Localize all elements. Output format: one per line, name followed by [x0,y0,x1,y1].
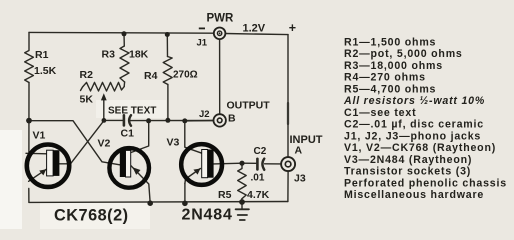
svg-text:J1, J2, J3—phono jacks: J1, J2, J3—phono jacks [344,130,481,142]
svg-text:R2—pot, 5,000 ohms: R2—pot, 5,000 ohms [344,48,463,60]
svg-text:Transistor sockets (3): Transistor sockets (3) [344,166,471,178]
capacitor C2 [256,159,259,170]
svg-text:R5—4,700 ohms: R5—4,700 ohms [344,83,436,95]
node R5 rail [239,199,245,205]
svg-text:C2—.01 µf, disc ceramic: C2—.01 µf, disc ceramic [344,119,484,131]
wire J1 to J2 [219,39,221,114]
wire V2 emitter down [131,166,151,204]
svg-text:R4: R4 [144,70,158,82]
wire V1 collector [26,152,47,155]
svg-text:R2: R2 [80,69,94,81]
node R3 top [122,31,127,36]
parts list [343,37,507,202]
svg-text:A: A [295,145,303,157]
resistor R3 [120,46,129,82]
svg-text:R1—1,500 ohms: R1—1,500 ohms [344,37,436,49]
svg-text:J2: J2 [199,109,210,120]
arrowheads [39,93,200,175]
wire left rail top [28,32,30,50]
svg-text:C2: C2 [254,146,267,157]
wire right rail lower [287,171,289,201]
wire V1 emitter [29,169,47,181]
svg-text:J1: J1 [197,38,208,49]
V2 emitter arrow [133,167,141,175]
wire V3 emitter [185,169,201,184]
wire left rail bottom [28,189,30,203]
svg-text:C1: C1 [121,128,135,140]
R2 wiper arrow [101,93,107,100]
svg-text:R5: R5 [218,189,232,201]
svg-text:+: + [289,21,296,35]
node V3 emitter rail [182,201,188,207]
svg-text:SEE TEXT: SEE TEXT [108,106,156,117]
V3 emitter arrow [193,169,200,175]
wire C2 to J3 [265,163,282,165]
wire top rail left to J1 [29,31,214,34]
svg-text:R3—18,000 ohms: R3—18,000 ohms [344,60,443,72]
svg-text:V3: V3 [167,137,180,149]
wire V3 base to node [214,162,242,165]
svg-text:V2: V2 [98,138,111,150]
svg-text:5K: 5K [80,94,94,106]
jack J3 [281,157,295,171]
light scan patches [0,130,22,229]
wire R2 right to R3 bottom [123,82,125,87]
node R4 bottom [165,118,170,123]
resistor R5 [238,163,247,202]
resistor R1 [25,51,34,83]
node R4 top [165,32,170,37]
wire bottom rail [29,201,288,204]
node V3 collector [182,118,187,123]
wire J1 to + corner (1.2V) [226,34,289,35]
wire right rail upper [287,35,289,158]
svg-text:270Ω: 270Ω [173,70,198,81]
wire node to V2 base (diagonal) [29,121,120,165]
svg-text:Perforated phenolic chassis: Perforated phenolic chassis [344,177,507,189]
svg-text:1.2V: 1.2V [243,23,266,35]
svg-text:B: B [228,113,236,125]
node R2 wiper / C1 [102,118,107,123]
svg-text:R3: R3 [102,49,116,61]
node V2 collector [146,118,151,123]
transistor V1 [27,145,69,187]
transistor V2 [109,148,149,188]
svg-text:OUTPUT: OUTPUT [227,100,271,112]
wire node to C2 [242,162,256,164]
jack J1 [214,28,226,40]
svg-text:C1—see text: C1—see text [344,107,416,119]
wire left rail mid [28,83,30,153]
svg-text:V3—2N484 (Raytheon): V3—2N484 (Raytheon) [344,154,472,166]
svg-text:PWR: PWR [207,13,235,25]
svg-text:R4—270 ohms: R4—270 ohms [344,72,426,84]
resistor R4 [163,57,172,85]
label minus [199,27,205,29]
ground [241,202,243,209]
svg-text:V1: V1 [33,130,46,142]
node left rail [26,118,32,124]
node V2 emitter rail [147,200,153,206]
svg-text:R1: R1 [35,49,49,61]
wire V2 collector up [131,121,149,153]
wire J2 left [185,120,214,122]
wire R4 upper [166,35,168,57]
svg-text:All resistors ½-watt 10%: All resistors ½-watt 10% [343,95,485,107]
svg-text:1.5K: 1.5K [34,65,57,77]
svg-text:18K: 18K [129,49,149,61]
capacitor C1 [123,115,126,125]
wire C1 right to J2 [129,120,213,122]
wire R4 lower [167,85,169,121]
svg-text:.01: .01 [251,173,265,184]
svg-text:4.7K: 4.7K [247,189,270,201]
svg-text:J3: J3 [294,173,306,185]
wire V3 collector down [185,121,202,153]
svg-text:V1, V2—CK768 (Raytheon): V1, V2—CK768 (Raytheon) [344,142,496,154]
resistor R2 [81,82,125,91]
transistor V3 [181,144,222,185]
wire C1 left [104,119,123,121]
svg-text:CK768(2): CK768(2) [54,207,129,225]
V1 emitter arrow [39,169,46,175]
wire V1 base to C1 node (diagonal) [59,121,104,164]
svg-text:Miscellaneous hardware: Miscellaneous hardware [344,189,484,201]
node C2/R5 [239,161,244,166]
svg-text:2N484: 2N484 [182,207,233,224]
wire R3 top [123,34,125,46]
jack J2 [214,114,226,126]
wire R2 wiper [103,97,105,121]
